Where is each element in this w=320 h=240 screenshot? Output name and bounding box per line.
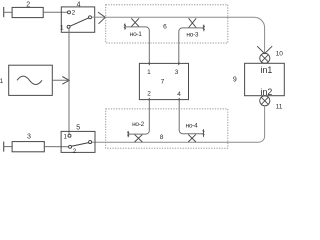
svg-text:1: 1 (147, 69, 151, 76)
contact no-4 X (188, 134, 196, 142)
wire terminal to R2 (4, 11, 12, 13)
svg-text:in2: in2 (261, 87, 273, 97)
sine source 1 box (9, 65, 53, 95)
svg-text:но-3: но-3 (186, 31, 198, 38)
switch 5 moving arm (72, 143, 89, 147)
svg-text:3: 3 (27, 134, 31, 141)
lamp 10 (260, 53, 270, 63)
switch 4 output contact circle (89, 16, 92, 19)
svg-text:6: 6 (163, 23, 167, 30)
wire R2 to switch 4 (43, 11, 67, 13)
svg-text:4: 4 (77, 1, 81, 8)
block 7 pin stub top 1 (148, 62, 150, 65)
terminal tick bottom-left (3, 142, 5, 152)
svg-text:2: 2 (147, 90, 151, 97)
svg-text:2: 2 (72, 10, 76, 17)
wire switch 4 output to bus arrow (92, 16, 106, 18)
bottom bus wire from lamp 11 to switch 5 (92, 106, 265, 142)
wire source to bus with arrowhead (52, 79, 69, 81)
dashed block 8 (106, 109, 228, 148)
svg-text:3: 3 (175, 69, 179, 76)
contact no-3 end tick (203, 25, 205, 32)
svg-text:2: 2 (73, 148, 77, 155)
svg-text:1: 1 (60, 25, 64, 32)
switch box 4 (61, 7, 94, 32)
arrowhead into block 6 (98, 12, 105, 24)
wire terminal to R3 (4, 146, 12, 148)
wire block 7 pin 2 down to contact no-2 (128, 100, 149, 135)
svg-text:4: 4 (177, 91, 181, 98)
switch 5 terminal 1 circle (68, 134, 71, 137)
contact no-4 end tick (203, 129, 205, 137)
contact no-2 X (135, 135, 143, 142)
switch 4 moving arm (70, 18, 89, 26)
svg-text:но-2: но-2 (132, 121, 144, 128)
switch 4 terminal 2 circle (68, 11, 71, 14)
vertical bus wire switch4 pin1 to switch5 pin1 (68, 28, 70, 134)
block 9 (245, 63, 285, 95)
svg-text:10: 10 (276, 51, 284, 58)
block 7 (139, 63, 188, 99)
svg-text:но-1: но-1 (130, 31, 142, 38)
block 7 pin stub bottom 4 (178, 98, 180, 101)
contact no-3 line and wire down to block 7 pin 3 (179, 28, 204, 64)
contact no-1 X (131, 18, 139, 26)
resistor 3 (12, 142, 44, 152)
lamp 11 (260, 96, 270, 106)
contact no-2 end tick (127, 131, 129, 137)
svg-text:но-4: но-4 (186, 122, 198, 129)
svg-text:8: 8 (160, 134, 164, 141)
switch 5 terminal 2 circle (69, 145, 72, 148)
svg-text:2: 2 (26, 2, 30, 9)
resistor 2 (12, 7, 43, 17)
terminal tick top-left (3, 7, 5, 17)
svg-text:in1: in1 (261, 65, 273, 75)
switch box 5 (61, 131, 95, 152)
svg-text:11: 11 (276, 103, 283, 110)
wire block 7 pin 4 down to contact no-4 (179, 100, 203, 134)
arrowhead above lamp 10 (257, 46, 272, 53)
block 7 pin stub top 3 (178, 62, 180, 65)
sine wave symbol (17, 76, 42, 84)
svg-text:5: 5 (76, 124, 80, 131)
top bus wire (105, 17, 265, 53)
block 7 pin stub bottom 2 (148, 98, 150, 101)
svg-text:9: 9 (233, 77, 237, 84)
dashed block 6 (106, 5, 228, 43)
arrowhead source to bus (62, 77, 69, 85)
switch 4 terminal 1 circle (67, 25, 70, 28)
wire R3 to switch 5 (44, 146, 68, 148)
svg-text:1: 1 (0, 78, 4, 85)
switch 5 output contact circle (89, 141, 92, 144)
contact no-1 end tick (124, 24, 126, 30)
contact no-1 line and wire down to block 7 pin 1 (125, 27, 149, 64)
contact no-3 X (189, 18, 197, 27)
svg-text:1: 1 (63, 133, 67, 140)
svg-text:7: 7 (161, 78, 165, 85)
